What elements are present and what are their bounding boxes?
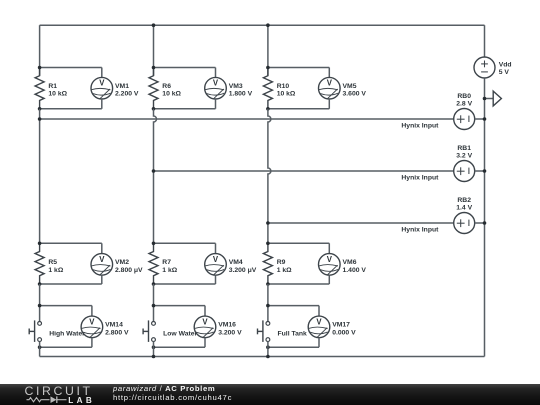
wire column 3 vertical (top rail to resistor R10) bbox=[267, 25, 269, 75]
label VM3 bbox=[229, 83, 253, 98]
label R1 bbox=[48, 83, 67, 98]
wire loop VM14 top bbox=[40, 305, 92, 307]
wire column 2 vertical (to switch) bbox=[153, 284, 155, 322]
node R1 top bbox=[38, 66, 42, 70]
wire column 2 vertical (top rail to resistor R6) bbox=[153, 25, 155, 75]
wire Hynix Input net to RB0 bbox=[40, 118, 454, 120]
wire bottom ground rail bbox=[40, 356, 485, 358]
wire RB0 to right bus bbox=[475, 118, 485, 120]
voltmeter VM17 bbox=[308, 316, 330, 338]
wire column 2 to bottom rail bbox=[153, 341, 155, 356]
voltmeter VM4 bbox=[205, 254, 227, 276]
voltage source RB0 2.8 V bbox=[454, 109, 475, 130]
resistor R7 1 kΩ bbox=[149, 243, 158, 284]
footer logo CIRCUIT bbox=[25, 385, 93, 397]
label VM4 bbox=[229, 259, 257, 274]
footer logo LAB bbox=[68, 397, 95, 405]
node R5 bottom bbox=[38, 282, 42, 286]
voltage source RB2 1.4 V bbox=[454, 213, 475, 234]
wire column 1 to bottom rail bbox=[39, 341, 41, 356]
wire column 3 vertical (to switch) bbox=[267, 284, 269, 322]
wire Hynix Input net to RB1 bbox=[154, 170, 454, 172]
node R7 bottom bbox=[152, 282, 156, 286]
node flag junction bbox=[483, 97, 487, 101]
wire loop VM5 bottom bbox=[328, 99, 330, 109]
node RB0 bus junction bbox=[483, 117, 487, 121]
label RB1 value bbox=[456, 145, 472, 160]
label RB2 value bbox=[456, 197, 472, 212]
wire RB1 to right bus bbox=[475, 170, 485, 172]
voltmeter VM6 bbox=[319, 254, 341, 276]
resistor R10 10 kΩ bbox=[263, 68, 272, 109]
resistor R1 10 kΩ bbox=[35, 68, 44, 109]
label VM5 bbox=[343, 83, 367, 98]
wire column 1 vertical (to resistor R5) bbox=[39, 109, 41, 244]
wire loop VM1 top bbox=[40, 67, 102, 69]
wire loop VM3 bottom bbox=[215, 99, 217, 109]
node R6 bottom bbox=[152, 107, 156, 111]
node R10 top bbox=[266, 66, 270, 70]
voltmeter VM2 bbox=[91, 254, 113, 276]
voltmeter VM1 bbox=[91, 77, 113, 99]
node Hynix line3 column 3 bbox=[266, 221, 270, 225]
node top rail column 3 bbox=[266, 23, 270, 27]
wire column 3 to bottom rail bbox=[267, 341, 269, 356]
wire loop VM6 bottom bbox=[328, 275, 330, 284]
wire column 1 vertical (top rail to resistor R1) bbox=[39, 25, 41, 75]
wire loop VM16 top bbox=[154, 305, 206, 307]
wire loop VM2 bottom bbox=[101, 275, 103, 284]
label R9 bbox=[277, 259, 292, 274]
node switch High Water bottom bbox=[38, 345, 42, 349]
node R5 top bbox=[38, 242, 42, 246]
label VM14 bbox=[105, 322, 129, 337]
node bottom rail column 2 bbox=[152, 355, 156, 359]
footer credit text bbox=[113, 385, 215, 393]
switch Full Tank pushbutton bbox=[258, 320, 270, 342]
label RB0 value bbox=[456, 93, 472, 108]
wire column 1 vertical (to switch) bbox=[39, 284, 41, 322]
node Hynix line2 column 2 bbox=[152, 169, 156, 173]
resistor R5 1 kΩ bbox=[35, 243, 44, 284]
node bottom rail column 3 bbox=[266, 355, 270, 359]
wire loop VM1 bottom bbox=[101, 99, 103, 109]
wire Hynix Input net to RB2 bbox=[268, 222, 454, 224]
wire loop VM17 top bbox=[268, 305, 319, 307]
voltage source RB1 3.2 V bbox=[454, 161, 475, 182]
label VM2 bbox=[115, 259, 143, 274]
voltage source Vdd 5 V bbox=[474, 57, 495, 78]
footer bar bbox=[0, 384, 540, 405]
node RB1 bus junction bbox=[483, 169, 487, 173]
node R9 bottom bbox=[266, 282, 270, 286]
label VM17 bbox=[332, 322, 356, 337]
voltmeter VM5 bbox=[319, 77, 341, 99]
wire loop VM3 top bbox=[154, 67, 216, 69]
wire loop VM6 top bbox=[268, 242, 329, 244]
wire loop VM14 bottom bbox=[91, 338, 93, 348]
node switch Full Tank top bbox=[266, 304, 270, 308]
label VM1 bbox=[115, 83, 139, 98]
node switch Full Tank bottom bbox=[266, 345, 270, 349]
node top rail column 2 bbox=[152, 23, 156, 27]
voltmeter VM3 bbox=[205, 77, 227, 99]
label Vdd bbox=[499, 61, 512, 76]
switch Low Water pushbutton bbox=[143, 320, 155, 342]
label R10 bbox=[277, 83, 296, 98]
wire loop VM4 bottom bbox=[215, 275, 217, 284]
label R5 bbox=[48, 259, 63, 274]
wire loop VM2 top bbox=[40, 242, 102, 244]
node Hynix line1 column 1 bbox=[38, 117, 42, 121]
wire loop VM16 bottom bbox=[204, 338, 206, 348]
wire top supply rail bbox=[40, 24, 485, 26]
node R7 top bbox=[152, 242, 156, 246]
net flag on right bus bbox=[485, 91, 502, 106]
node R10 bottom bbox=[266, 107, 270, 111]
wire RB2 to right bus bbox=[475, 222, 485, 224]
node switch Low Water top bbox=[152, 304, 156, 308]
node R9 top bbox=[266, 242, 270, 246]
voltmeter VM16 bbox=[194, 316, 216, 338]
voltmeter VM14 bbox=[81, 316, 103, 338]
switch High Water pushbutton bbox=[29, 320, 41, 342]
label R6 bbox=[162, 83, 181, 98]
label VM6 bbox=[343, 259, 367, 274]
node R1 bottom bbox=[38, 107, 42, 111]
node switch Low Water bottom bbox=[152, 345, 156, 349]
resistor R9 1 kΩ bbox=[263, 243, 272, 284]
wire loop VM17 bottom bbox=[318, 338, 320, 348]
wire column 3 vertical (to resistor R9) bbox=[268, 109, 271, 244]
node switch High Water top bbox=[38, 304, 42, 308]
node RB2 bus junction bbox=[483, 221, 487, 225]
label VM16 bbox=[218, 322, 242, 337]
node R6 top bbox=[152, 66, 156, 70]
wire right bus (below Vdd) bbox=[484, 78, 486, 356]
wire loop VM4 top bbox=[154, 242, 216, 244]
wire right bus (upper, top rail to Vdd) bbox=[484, 25, 486, 57]
wire loop VM5 top bbox=[268, 67, 329, 69]
label R7 bbox=[162, 259, 177, 274]
wire column 2 vertical (to resistor R7) bbox=[154, 109, 157, 244]
resistor R6 10 kΩ bbox=[149, 68, 158, 109]
